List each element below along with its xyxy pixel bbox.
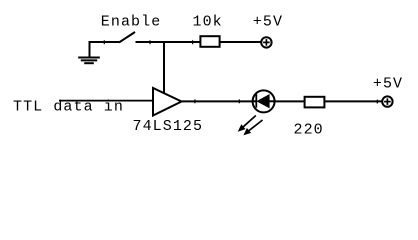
wire: [324, 100, 382, 102]
svg-text:Enable: Enable: [101, 13, 162, 30]
wire: [182, 100, 253, 102]
node enable junction: [163, 42, 165, 94]
svg-text:10k: 10k: [193, 14, 223, 31]
svg-text:220: 220: [294, 122, 324, 139]
wire: [220, 41, 261, 43]
svg-text:+5V: +5V: [253, 13, 283, 30]
wire: [275, 100, 304, 102]
buffer U1 74LS125: [153, 88, 182, 116]
wire: [59, 100, 153, 102]
LED light arrow 1: [238, 116, 256, 132]
ground: [78, 42, 100, 63]
resistor R1: [200, 36, 219, 47]
LED D1: [252, 90, 276, 112]
wire: [89, 41, 120, 43]
power +5V terminal (right): [382, 96, 392, 106]
switch S1 lever: [119, 32, 135, 43]
svg-text:74LS125: 74LS125: [133, 118, 204, 135]
svg-text:+5V: +5V: [373, 75, 403, 92]
power +5V terminal (top): [261, 37, 271, 47]
node tick marks on output wire: [195, 99, 377, 103]
node tick marks on enable wire: [104, 40, 192, 44]
resistor R2: [305, 97, 325, 108]
LED light arrow 2: [244, 120, 263, 135]
wire: [136, 41, 201, 43]
